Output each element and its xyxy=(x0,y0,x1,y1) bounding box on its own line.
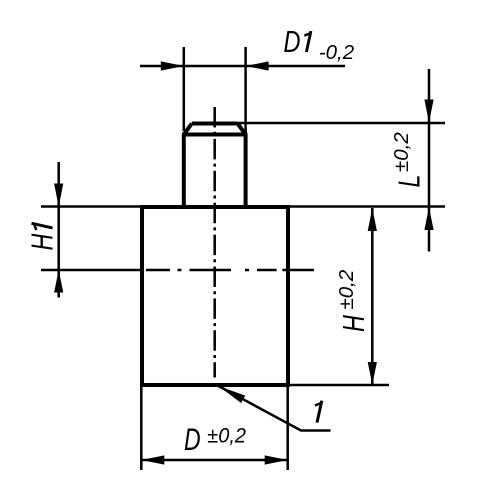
label L, rotated xyxy=(391,175,426,188)
svg-text:±0,2: ±0,2 xyxy=(335,269,358,309)
svg-text:L: L xyxy=(391,175,426,188)
dimension H: bottom arrow xyxy=(368,362,377,385)
dimension D1: left arrow xyxy=(161,61,184,70)
dimension L: bottom arrow xyxy=(424,207,433,230)
dimension H: top arrow xyxy=(368,208,377,231)
label D1 xyxy=(284,24,301,59)
dimension H: dimension line xyxy=(371,208,374,385)
dimension H1: top reference line xyxy=(41,205,142,208)
label 1 (item number): flag xyxy=(315,403,321,406)
label H tolerance ±0,2, rotated xyxy=(335,269,358,309)
label H, rotated xyxy=(336,315,371,332)
svg-text:±0,2: ±0,2 xyxy=(390,132,413,172)
svg-text:-0,2: -0,2 xyxy=(319,41,355,64)
dimension D1: right extension line xyxy=(244,47,247,133)
stud left edge xyxy=(182,135,186,207)
label H1, rotated xyxy=(24,234,59,251)
stud right edge xyxy=(244,135,248,207)
dimension L / H: body-top reference line xyxy=(288,205,445,208)
dimension D1: dimension line xyxy=(140,65,345,68)
svg-text:D: D xyxy=(184,421,201,456)
stud chamfer base line xyxy=(182,133,247,137)
dimension D: left arrow xyxy=(141,455,164,464)
leader arrow xyxy=(219,386,246,403)
dimension D1: left extension line xyxy=(183,47,186,131)
label D1: digit 1 flag xyxy=(304,33,310,35)
svg-text:D: D xyxy=(284,24,301,59)
stud top face xyxy=(192,122,238,126)
dimension L: dimension line xyxy=(428,69,431,252)
dimension D: right arrow xyxy=(265,455,288,464)
body outline xyxy=(142,207,288,385)
dimension L: top arrow xyxy=(424,100,433,123)
dimension D: dimension line xyxy=(141,459,287,462)
dimension D: left extension line xyxy=(140,387,143,470)
dimension H1: top arrow xyxy=(54,184,63,207)
dimension D: right extension line xyxy=(286,387,289,470)
stud chamfer left diagonal xyxy=(184,124,192,135)
label H1: digit 1 flag xyxy=(34,224,37,230)
horizontal centerline xyxy=(146,269,314,272)
leader line for item 1 xyxy=(219,386,331,431)
svg-text:H: H xyxy=(24,234,59,251)
stud chamfer right diagonal xyxy=(238,124,246,135)
label D tolerance ±0,2 xyxy=(207,424,246,448)
label D1 tolerance -0,2 xyxy=(319,41,355,64)
dimension H1: bottom reference line xyxy=(41,269,142,272)
label L tolerance ±0,2, rotated xyxy=(390,132,413,172)
svg-text:H: H xyxy=(336,315,371,332)
label D1: digit 1 stem xyxy=(306,31,311,52)
label D xyxy=(184,421,201,456)
vertical centerline xyxy=(213,107,216,378)
svg-text:±0,2: ±0,2 xyxy=(207,424,246,448)
label H1: digit 1 stem xyxy=(32,223,53,228)
dimension L: top reference line xyxy=(238,122,445,125)
dimension H: body-bottom reference line xyxy=(288,384,389,387)
dimension H1: dimension line xyxy=(57,162,60,298)
dimension D1: right arrow xyxy=(246,61,269,70)
label 1 (item number): stem xyxy=(317,401,322,423)
dimension H1: bottom arrow xyxy=(54,270,63,293)
